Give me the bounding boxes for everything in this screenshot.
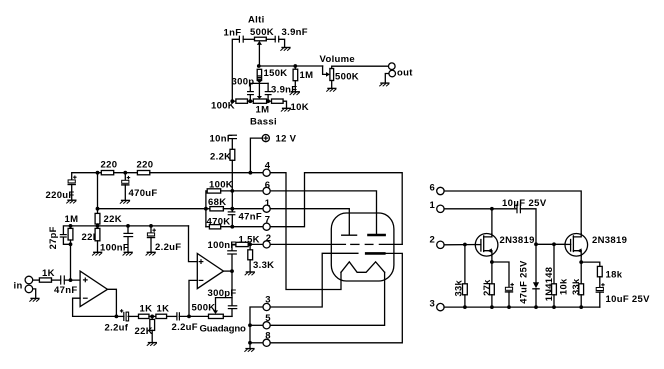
connector in jack sleeve circle bbox=[25, 285, 33, 293]
svg-text:1M: 1M bbox=[300, 70, 314, 81]
svg-text:2.2uf: 2.2uf bbox=[105, 322, 129, 333]
connector out jack sleeve circle bbox=[389, 70, 396, 77]
resistor 10K (Bassi row) bbox=[267, 99, 287, 108]
svg-text:Bassi: Bassi bbox=[250, 116, 277, 127]
node Bassi row left dot bbox=[230, 99, 234, 103]
svg-text:10uF 25V: 10uF 25V bbox=[606, 294, 651, 305]
svg-text:1K: 1K bbox=[140, 303, 153, 314]
capacitor 47uF 25V electrolytic bbox=[505, 283, 514, 307]
tube grid1 cap bar bbox=[342, 234, 357, 236]
potentiometer Alti wiper arrow bbox=[257, 41, 262, 66]
node dot gate row at 10k column bbox=[552, 242, 556, 246]
resistor 18k (vertical) bbox=[597, 266, 602, 276]
capacitor 220uF electrolytic bbox=[68, 176, 77, 185]
wire to volume wiper bbox=[323, 66, 327, 74]
node dot row4 at 470uF bbox=[123, 171, 127, 175]
wire 18k to 10uF bbox=[599, 277, 601, 288]
wire 1M row corner down to op-amp2 plus input bbox=[189, 226, 198, 262]
capacitor C 10uF 25V (horizontal) bbox=[517, 204, 520, 214]
op-amp U1 plus sign bbox=[83, 278, 88, 283]
resistor 220 (second) bbox=[137, 171, 149, 175]
wire 22K to 1M row bbox=[97, 224, 99, 228]
svg-text:2.2uF: 2.2uF bbox=[155, 242, 181, 253]
node dot row6 at column x232 bbox=[230, 189, 234, 193]
connector pin 2 circle bbox=[263, 241, 270, 248]
resistor 10k (vertical) bbox=[552, 244, 557, 307]
capacitor C 300pF bbox=[228, 271, 238, 316]
wire source node to 47uF bbox=[492, 262, 509, 287]
svg-text:300p: 300p bbox=[232, 77, 255, 88]
svg-text:27k: 27k bbox=[482, 279, 492, 296]
capacitor C 3.9nF lower bbox=[265, 83, 272, 101]
potentiometer Bassi 1M wiper arrow bbox=[257, 96, 262, 99]
svg-text:2N3819: 2N3819 bbox=[500, 235, 535, 246]
ground (out jack) bbox=[379, 83, 389, 86]
wire 22K column row4 to row1 bbox=[97, 173, 99, 214]
potentiometer Bassi 1M body bbox=[253, 99, 266, 103]
svg-text:33k: 33k bbox=[454, 279, 464, 296]
node dot 3.9nF/Bassi bbox=[266, 99, 270, 103]
svg-text:12 V: 12 V bbox=[276, 134, 297, 145]
connector pin 6 circle (right) bbox=[437, 187, 444, 194]
resistor 1M (vertical, at row66) bbox=[293, 66, 298, 91]
wire pin2 to grid dashed line bbox=[270, 243, 345, 245]
resistor 22K (upper vertical) bbox=[95, 213, 100, 224]
ground (Volume) bbox=[326, 88, 336, 91]
wire pin4 to heater left bbox=[270, 173, 341, 290]
capacitor C 47nF (input) bbox=[61, 275, 65, 284]
capacitor 470uF electrolytic bbox=[121, 173, 130, 185]
resistor 1K (input) bbox=[33, 278, 61, 282]
diode D1 1N4148 bbox=[533, 244, 539, 307]
capacitor C 100nF (left) bbox=[123, 226, 133, 252]
node dot bus pin8 bbox=[248, 341, 252, 345]
svg-text:2: 2 bbox=[430, 235, 436, 246]
node dot 1.5K / 3.3K bbox=[248, 243, 263, 247]
resistor 22K (mid vertical) bbox=[150, 316, 155, 342]
node dot gate row at diode column bbox=[534, 242, 538, 246]
op-amp U1 triangle bbox=[80, 271, 107, 307]
resistor 33k (first, vertical) bbox=[463, 245, 468, 308]
node dot 33k top bbox=[463, 243, 467, 247]
ground (22K mid) bbox=[147, 343, 157, 346]
wire pin6 to anode top bbox=[270, 191, 376, 235]
node dot 22K mid bbox=[149, 315, 156, 319]
tube envelope bbox=[331, 213, 394, 281]
node dot rail 27k bbox=[490, 305, 494, 309]
resistor 33k (second, vertical) bbox=[579, 262, 584, 307]
svg-text:47nF: 47nF bbox=[239, 211, 262, 222]
ground (in jack) bbox=[29, 298, 39, 301]
wire 2.2uF to ground bbox=[150, 238, 152, 252]
potentiometer Guadagno wiper arrow bbox=[213, 298, 232, 314]
potentiometer Guadagno 500K body bbox=[209, 314, 224, 318]
wire pins 3/5/8 ground bus bbox=[250, 307, 263, 348]
node dot op-amp1 output bbox=[115, 315, 119, 319]
node dot row7 at column x232 bbox=[230, 225, 234, 229]
svg-text:Volume: Volume bbox=[320, 54, 356, 65]
node dot rail 33k second bbox=[579, 305, 583, 309]
tube heater zigzag bbox=[341, 262, 385, 273]
resistor 1K (second) bbox=[156, 314, 167, 318]
ground (3.3K) bbox=[245, 272, 255, 275]
svg-text:22K: 22K bbox=[135, 326, 153, 337]
tube grid dashes bbox=[351, 243, 402, 245]
wire 1nF to Alti pot bbox=[243, 38, 254, 40]
svg-text:10K: 10K bbox=[291, 102, 309, 113]
capacitor C 27pF loop bbox=[60, 226, 71, 244]
capacitor C 10nF (in column x232) bbox=[228, 135, 237, 138]
wire bus row1 to middle column bbox=[98, 208, 206, 210]
wire bottom rail bbox=[444, 306, 600, 308]
resistor 470K bbox=[206, 225, 263, 229]
svg-text:500K: 500K bbox=[335, 72, 359, 83]
svg-text:6: 6 bbox=[430, 182, 436, 193]
node dot feedback op-amp2 bbox=[187, 315, 191, 319]
svg-text:1K: 1K bbox=[157, 303, 170, 314]
svg-text:220: 220 bbox=[137, 160, 154, 171]
svg-text:Guadagno: Guadagno bbox=[200, 324, 247, 335]
wire 1M row bbox=[71, 225, 189, 227]
svg-text:100nF: 100nF bbox=[208, 240, 237, 251]
wire op-amp2 output bbox=[224, 270, 233, 272]
ground (22K lower) bbox=[92, 252, 102, 255]
svg-text:47nF: 47nF bbox=[54, 285, 77, 296]
op-amp U1 minus sign bbox=[83, 297, 88, 299]
connector pin 7 circle bbox=[263, 223, 270, 230]
connector pin 3 circle (right) bbox=[437, 303, 444, 310]
capacitor C 47nF (ladder) bbox=[228, 191, 236, 227]
node junction dot at 1M vertical resistor bbox=[293, 64, 297, 68]
svg-text:3.9nF: 3.9nF bbox=[282, 27, 308, 38]
node dot 1M top bbox=[69, 224, 73, 228]
svg-text:3.9nF: 3.9nF bbox=[271, 85, 297, 96]
wire pin3 to cathode line bbox=[270, 253, 358, 307]
wire between 220 resistors bbox=[114, 172, 138, 174]
ground (100nF left) bbox=[123, 252, 133, 255]
transistor Q2 2N3819 bbox=[565, 234, 588, 257]
ground (2.2uF left) bbox=[146, 252, 156, 255]
capacitor 2.2uf electrolytic (horizontal) bbox=[116, 309, 138, 321]
wiper arrow below 150K bbox=[257, 80, 262, 83]
svg-text:22K: 22K bbox=[104, 214, 122, 225]
ground (220uF) bbox=[66, 200, 76, 203]
op-amp U2 triangle bbox=[197, 254, 223, 289]
connector pin 1 circle (right) bbox=[437, 205, 444, 212]
node dot JFET2 source bbox=[579, 260, 583, 264]
wire 3.9nF to ground bbox=[279, 39, 285, 47]
wire row4 long segment to pin4 bbox=[150, 172, 263, 174]
svg-text:2.2uF: 2.2uF bbox=[172, 322, 198, 333]
wire Alti pot to 3.9nF bbox=[266, 38, 275, 40]
capacitor C 2.2uF (horizontal mid) bbox=[167, 312, 209, 320]
svg-text:220uF: 220uF bbox=[46, 190, 75, 201]
ground (3.9nF top) bbox=[280, 48, 290, 51]
svg-text:2.2K: 2.2K bbox=[210, 151, 231, 162]
tube lower plate bar (thick) bbox=[365, 252, 386, 255]
wire pin2 to JFET1 gate bbox=[444, 244, 481, 246]
node dot row4 at 12V feed bbox=[249, 171, 253, 175]
node dot bus pin5 bbox=[248, 323, 252, 327]
node dot 100nF bbox=[126, 224, 130, 228]
capacitor C 300p bbox=[247, 83, 254, 101]
connector in jack tip circle bbox=[25, 276, 33, 284]
svg-text:27pF: 27pF bbox=[48, 226, 58, 249]
wire row4 left segment with corner down to 220uF bbox=[72, 173, 102, 180]
tube anode bar (thick) bbox=[367, 234, 386, 237]
wire 12V to row4 bbox=[250, 138, 262, 173]
svg-text:1: 1 bbox=[430, 200, 436, 211]
wire stem 150K wiper to Bassi pot bbox=[258, 83, 260, 96]
node dot row1 at column x232 bbox=[230, 207, 234, 211]
node dot rail 10k bbox=[552, 305, 556, 309]
ground (pins 3/5/8 bus) bbox=[244, 349, 254, 352]
potentiometer Volume wiper arrow bbox=[326, 72, 330, 77]
resistor 150K (vertical with stripes) bbox=[257, 69, 261, 80]
connector pin 4 circle bbox=[263, 169, 270, 176]
op-amp U2 minus sign bbox=[199, 279, 204, 281]
wire 220uF to ground bbox=[71, 185, 73, 200]
wire volume top to out jack bbox=[332, 66, 389, 68]
wire pot right terminal to 300pF column bbox=[223, 315, 232, 317]
wire op-amp1 feedback bbox=[73, 298, 117, 316]
svg-text:500K: 500K bbox=[192, 303, 216, 314]
resistor 100K (Bassi row) bbox=[232, 99, 253, 103]
wire column 2.2K down across row4 to row6 bbox=[231, 160, 233, 191]
node dot op-amp1 plus input bbox=[69, 278, 73, 282]
capacitor 2.2uF electrolytic (left) bbox=[147, 226, 156, 238]
connector pin 3 circle bbox=[263, 303, 270, 310]
wire pin1 to 10uF cap bbox=[444, 208, 517, 210]
svg-text:1M: 1M bbox=[65, 214, 79, 225]
wire sleeve to ground bbox=[33, 289, 36, 298]
svg-text:3.3K: 3.3K bbox=[253, 260, 274, 271]
svg-text:1nF: 1nF bbox=[224, 27, 242, 38]
svg-text:500K: 500K bbox=[250, 27, 274, 38]
wire T-bar under 150K bbox=[250, 82, 268, 84]
node dot rail diode bbox=[534, 305, 538, 309]
ground (470uF) bbox=[120, 200, 130, 203]
capacitor C 1nF bbox=[239, 36, 243, 43]
wire source node to 18k bbox=[581, 262, 600, 266]
wire 470uF to ground bbox=[124, 185, 126, 200]
wire op-amp1 output bbox=[108, 289, 117, 316]
svg-text:100nF: 100nF bbox=[100, 242, 129, 253]
node dot bus row1 at 22K column bbox=[96, 207, 100, 211]
svg-text:10µF 25V: 10µF 25V bbox=[502, 198, 547, 209]
svg-text:in: in bbox=[14, 281, 23, 292]
resistor 3.3K (vertical) bbox=[248, 244, 253, 271]
wire JFET2 source down bbox=[580, 256, 582, 262]
wire row y66 bbox=[259, 65, 323, 67]
wire out sleeve to ground bbox=[385, 74, 389, 83]
wire pin8 to lower plate line bbox=[270, 253, 402, 342]
ground (1M vertical) bbox=[290, 92, 300, 95]
connector pin 6 circle bbox=[263, 187, 270, 194]
wire gate row to JFET2 gate bbox=[554, 243, 571, 245]
resistor 68K bbox=[206, 207, 263, 211]
connector pin 1 circle bbox=[263, 205, 270, 212]
resistor 27k (vertical) bbox=[490, 262, 495, 307]
connector pin 2 circle (right) bbox=[437, 241, 444, 248]
node dot 1M bottom bbox=[69, 242, 73, 246]
wire pin6 to JFET2 drain bbox=[444, 191, 581, 237]
node dot rail 47uF bbox=[507, 305, 511, 309]
node dot JFET1 drain bbox=[490, 207, 494, 211]
svg-text:470uF: 470uF bbox=[129, 188, 158, 199]
svg-text:Alti: Alti bbox=[248, 15, 265, 26]
wire column between 10nF and 2.2K bbox=[231, 139, 233, 150]
svg-text:10k: 10k bbox=[559, 278, 569, 295]
wire gate row diode to 10k bbox=[536, 243, 554, 245]
wire JFET1 source down bbox=[491, 256, 493, 262]
node dot bus row1 left bbox=[204, 207, 208, 211]
svg-text:18k: 18k bbox=[606, 269, 623, 280]
resistor 1M (left vertical) bbox=[68, 226, 73, 244]
potentiometer Volume 500K body bbox=[330, 69, 334, 81]
node dot JFET1 source bbox=[490, 260, 494, 264]
svg-text:33k: 33k bbox=[571, 278, 581, 295]
resistor 220 (first) bbox=[101, 171, 113, 175]
svg-text:out: out bbox=[397, 68, 413, 79]
node dot 300p/Bassi bbox=[248, 99, 252, 103]
svg-text:1M: 1M bbox=[256, 105, 270, 116]
node row y66: junction dot under Alti wiper bbox=[257, 64, 261, 68]
resistor 1K (first) bbox=[139, 314, 150, 318]
svg-text:3: 3 bbox=[430, 298, 436, 309]
wire JFET1 drain bbox=[491, 209, 493, 237]
node dot op-amp2 output bbox=[230, 269, 234, 273]
wire 47nF to op-amp1 bbox=[64, 279, 80, 281]
svg-text:150K: 150K bbox=[264, 68, 288, 79]
node dot 1M row at 22K bbox=[96, 224, 100, 228]
svg-text:220: 220 bbox=[101, 160, 118, 171]
power symbol +12V circle bbox=[262, 135, 269, 142]
wire pin1 to grid1 bar bbox=[270, 209, 349, 235]
capacitor C 3.9nF top bbox=[275, 36, 279, 43]
svg-text:47uF 25V: 47uF 25V bbox=[518, 260, 528, 304]
node dot 2.2uF bbox=[149, 224, 153, 228]
svg-text:2N3819: 2N3819 bbox=[592, 235, 627, 246]
resistor 22K (lower vertical) bbox=[95, 226, 100, 252]
connector out jack tip circle bbox=[389, 63, 396, 70]
wire 10uF to gate row bbox=[520, 209, 536, 245]
potentiometer Alti 500K body bbox=[255, 37, 267, 41]
node dot rail 33k bbox=[463, 305, 467, 309]
op-amp U2 plus sign bbox=[199, 259, 204, 264]
wire op-amp2 minus feedback bbox=[189, 280, 197, 316]
wire pin7 to grid right (up, long top wire, right drop) bbox=[270, 173, 402, 245]
capacitor C 100nF (mid, above output) bbox=[227, 244, 237, 271]
wire 1M bottom to input node bbox=[70, 244, 72, 280]
svg-text:300pF: 300pF bbox=[208, 288, 237, 299]
node dot row4 at 22K column bbox=[96, 171, 100, 175]
connector pin 8 circle bbox=[263, 339, 270, 346]
wire pin5 to heater right bbox=[270, 272, 384, 325]
resistor 2.2K (vertical) bbox=[230, 149, 235, 160]
connector pin 5 circle bbox=[263, 322, 270, 329]
ground (Bassi 10K) bbox=[281, 108, 291, 111]
resistor 1.5K bbox=[236, 242, 248, 246]
wire volume bottom to ground bbox=[331, 81, 333, 88]
resistor 100K (ladder) bbox=[206, 189, 263, 227]
capacitor 10uF 25V electrolytic (output) bbox=[596, 283, 605, 307]
wire top-left corner down from 1nF row bbox=[232, 39, 239, 101]
transistor Q1 2N3819 bbox=[475, 234, 498, 257]
